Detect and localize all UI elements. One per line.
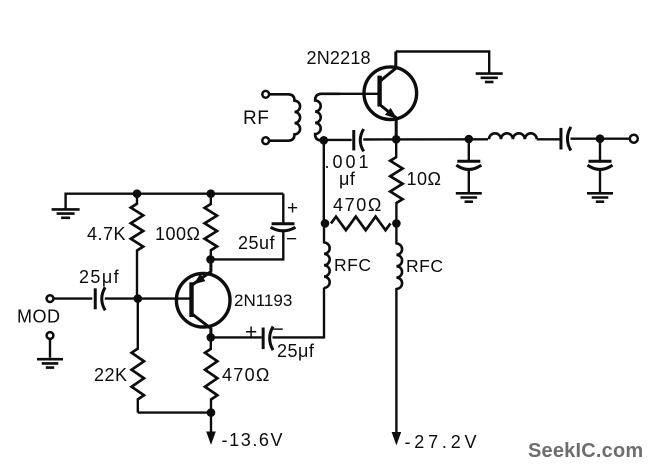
transformer T1 primary	[269, 94, 300, 140]
capacitor C1 25uf electrolytic	[282, 194, 284, 224]
svg-text:25uf: 25uf	[238, 233, 276, 253]
svg-text:RFC: RFC	[406, 256, 443, 276]
emitter arrow Q1 (PNP)	[193, 274, 205, 285]
capacitor C3 25uf series	[262, 328, 265, 350]
capacitor C2 25uf series at MOD	[94, 288, 97, 309]
resistor R4 470ohm vertical	[210, 337, 212, 349]
svg-text:RFC: RFC	[334, 255, 371, 275]
node collector Q1	[207, 333, 216, 342]
terminal MOD input	[47, 295, 54, 302]
transistor Q2 2N2218 circle	[364, 67, 417, 120]
supply arrow -27.2V	[392, 432, 402, 445]
svg-text:+: +	[287, 198, 299, 219]
svg-text:25μf: 25μf	[79, 267, 120, 287]
wire RFC2 down	[395, 288, 397, 438]
svg-text:470Ω: 470Ω	[222, 365, 271, 385]
svg-text:μf: μf	[339, 169, 356, 189]
wire secondary node down	[323, 140, 325, 224]
resistor R6 470ohm horizontal	[331, 217, 391, 231]
svg-text:-27.2V: -27.2V	[405, 432, 481, 452]
node base 2N1193	[134, 294, 143, 303]
resistor R3 22K	[137, 299, 139, 350]
capacitor C5 shunt	[468, 139, 470, 161]
wire cap to emitter node	[363, 138, 488, 141]
inductor L1 filter coil	[489, 133, 537, 139]
node bottom rail	[207, 408, 216, 417]
inductor RFC1 left	[324, 243, 330, 288]
base bar Q2	[377, 76, 381, 107]
node shunt C7	[596, 134, 605, 143]
wire coil to cap	[537, 138, 561, 140]
ground G1 top-left	[52, 208, 80, 211]
supply arrow -13.6V	[210, 413, 212, 436]
ground G5 filter output	[587, 192, 613, 195]
svg-text:+: +	[245, 321, 258, 344]
svg-text:4.7K: 4.7K	[87, 224, 126, 244]
capacitor C6 series filter	[559, 128, 562, 150]
resistor R2 100ohm	[205, 204, 217, 250]
wire bottom rail	[138, 411, 211, 413]
wire cap to RFC corner	[273, 336, 325, 338]
resistor R5 10ohm	[395, 139, 397, 158]
terminal output	[630, 135, 638, 143]
node rail-4.7K	[133, 189, 142, 198]
wire MOD ground	[49, 339, 51, 358]
emitter lead Q1	[192, 258, 211, 285]
transformer T1 secondary	[315, 94, 340, 141]
node emitter Q2	[392, 135, 401, 144]
svg-text:−: −	[286, 229, 298, 250]
wire cap to node	[571, 137, 630, 139]
wire MOD to cap	[53, 297, 92, 299]
svg-text:2N1193: 2N1193	[234, 291, 292, 310]
node 470H right	[392, 219, 401, 228]
emitter lead Q2	[380, 105, 397, 140]
wire collector to ground	[396, 52, 489, 73]
wire cap to base node	[105, 297, 190, 299]
resistor R1 4.7K	[131, 204, 143, 251]
svg-text:2N2218: 2N2218	[307, 48, 371, 68]
transistor Q1 2N1193 circle	[176, 273, 230, 327]
wire collector to cap	[211, 336, 262, 338]
node shunt C5	[465, 135, 474, 144]
node emitter 2N1193	[206, 255, 215, 264]
ground G4 filter	[456, 192, 482, 195]
inductor RFC2 right	[395, 223, 397, 244]
node 470H left	[321, 219, 330, 228]
wire left stub	[64, 193, 66, 209]
svg-text:MOD: MOD	[17, 307, 61, 327]
svg-text:470Ω: 470Ω	[333, 195, 383, 215]
svg-text:22K: 22K	[94, 365, 128, 385]
terminal RF bottom	[262, 137, 269, 144]
svg-text:25μf: 25μf	[277, 341, 315, 361]
base bar Q1	[189, 282, 193, 317]
collector lead Q2	[380, 52, 396, 82]
ground G3 top-right	[476, 72, 503, 75]
wire cap to emitter node	[211, 258, 285, 260]
terminal RF top	[262, 91, 269, 98]
svg-text:-13.6V: -13.6V	[222, 430, 285, 450]
node rail-100ohm	[207, 189, 216, 198]
terminal ground MOD	[47, 332, 54, 339]
emitter arrow Q2 (NPN)	[385, 108, 397, 119]
svg-text:SeekIC.com: SeekIC.com	[528, 440, 643, 462]
capacitor C4 .001uf series	[324, 139, 352, 141]
wire top rail	[66, 192, 284, 194]
svg-text:10Ω: 10Ω	[407, 169, 442, 189]
svg-text:RF: RF	[243, 108, 269, 129]
svg-text:100Ω: 100Ω	[155, 224, 201, 244]
capacitor C7 shunt	[599, 139, 601, 162]
collector lead Q1	[192, 314, 211, 338]
node secondary bottom	[320, 136, 329, 145]
wire secondary to base	[338, 93, 378, 95]
ground G2 under MOD	[37, 358, 63, 361]
